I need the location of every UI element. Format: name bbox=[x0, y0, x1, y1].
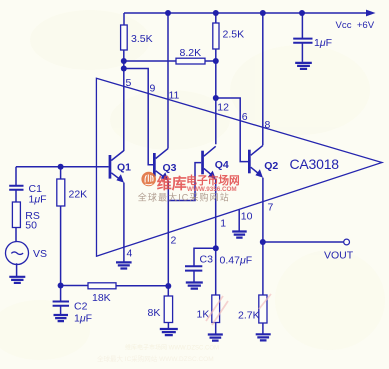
svg-text:全球最大 IC采购网站 WWW.DZSC.COM: 全球最大 IC采购网站 WWW.DZSC.COM bbox=[97, 354, 214, 363]
svg-text:1μF: 1μF bbox=[29, 194, 47, 206]
svg-text:8K: 8K bbox=[148, 307, 161, 319]
svg-text:0.47μF: 0.47μF bbox=[220, 255, 253, 267]
svg-text:50: 50 bbox=[25, 220, 37, 232]
svg-text:VS: VS bbox=[33, 248, 47, 260]
svg-text:全球最大IC采购网站: 全球最大IC采购网站 bbox=[138, 192, 230, 203]
svg-text:2.5K: 2.5K bbox=[223, 29, 245, 41]
svg-text:Q3: Q3 bbox=[163, 162, 177, 174]
svg-text:6: 6 bbox=[242, 111, 248, 123]
svg-text:维库: 维库 bbox=[157, 175, 187, 193]
svg-text:8: 8 bbox=[265, 119, 271, 131]
svg-text:VOUT: VOUT bbox=[324, 250, 354, 262]
svg-text:维库电子市场网 WWW.DZSC.COM: 维库电子市场网 WWW.DZSC.COM bbox=[125, 344, 219, 352]
svg-text:C3: C3 bbox=[200, 254, 214, 266]
svg-text:1μF: 1μF bbox=[314, 37, 332, 49]
svg-text:8.2K: 8.2K bbox=[180, 47, 202, 59]
svg-text:11: 11 bbox=[169, 90, 180, 102]
svg-text:9: 9 bbox=[150, 83, 156, 95]
svg-text:Q4: Q4 bbox=[215, 159, 229, 171]
svg-text:2: 2 bbox=[171, 235, 177, 247]
svg-text:18K: 18K bbox=[92, 292, 111, 304]
svg-text:Vcc +6V: Vcc +6V bbox=[336, 20, 375, 31]
svg-text:5: 5 bbox=[126, 77, 132, 89]
svg-text:C2: C2 bbox=[74, 301, 88, 313]
svg-text:3.5K: 3.5K bbox=[131, 33, 153, 45]
svg-text:2.7K: 2.7K bbox=[238, 310, 260, 322]
svg-text:7: 7 bbox=[268, 202, 274, 214]
svg-text:1μF: 1μF bbox=[74, 313, 92, 325]
svg-text:4: 4 bbox=[127, 248, 133, 260]
svg-text:10: 10 bbox=[241, 211, 253, 223]
svg-text:Q2: Q2 bbox=[264, 160, 278, 172]
svg-text:12: 12 bbox=[217, 102, 229, 114]
svg-text:1: 1 bbox=[220, 218, 226, 230]
svg-text:22K: 22K bbox=[69, 189, 88, 201]
svg-text:CA3018: CA3018 bbox=[290, 156, 340, 172]
svg-text:Q1: Q1 bbox=[117, 162, 131, 174]
